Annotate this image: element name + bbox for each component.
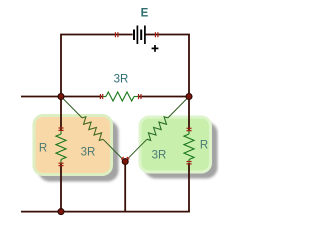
wire right R bottom lead (188, 163, 190, 212)
wire left stub (21, 96, 61, 98)
wire middle left of 3R (61, 96, 102, 98)
resistor 3R diagonal right zigzag (147, 117, 168, 141)
node C ticks (121, 157, 129, 159)
highlight box green shadow (145, 122, 218, 179)
resistor R left bottom ticks (59, 163, 64, 165)
highlight box orange (34, 116, 112, 175)
resistor R left top ticks (59, 128, 64, 130)
resistor 3R middle zigzag (106, 92, 134, 101)
node B (186, 94, 192, 100)
node C (122, 159, 128, 165)
battery E plates (134, 26, 145, 45)
wire right R top lead (188, 97, 190, 131)
resistor 3R diagonal left zigzag (82, 117, 103, 141)
battery plus sign (152, 45, 159, 52)
svg-text:R: R (200, 140, 208, 152)
resistor 3R middle leads (102, 96, 106, 98)
resistor R right zigzag (184, 134, 194, 160)
battery right terminal ticks (155, 32, 158, 37)
node D (58, 209, 64, 215)
wire top left segment (61, 35, 133, 97)
wire left R top lead (60, 97, 62, 131)
wire node C stem (124, 162, 126, 212)
resistor 3R middle left ticks (100, 94, 102, 99)
resistor 3R diagonal left leads (61, 97, 82, 118)
svg-text:3R: 3R (81, 147, 96, 159)
resistor R right leads (188, 130, 190, 134)
battery left terminal ticks (115, 32, 118, 37)
svg-text:R: R (39, 143, 47, 155)
resistor R right top ticks (187, 128, 192, 130)
svg-text:3R: 3R (152, 150, 167, 162)
resistor R right bottom ticks (187, 162, 192, 164)
resistor 3R middle right ticks (139, 94, 142, 99)
highlight box green (140, 117, 211, 172)
node A (58, 94, 64, 100)
resistor 3R diagonal right leads (168, 97, 189, 118)
svg-text:E: E (141, 8, 149, 20)
resistor R left zigzag (56, 134, 66, 160)
wire top right segment (146, 35, 190, 97)
resistor R left leads (60, 130, 62, 134)
wire left R bottom lead (60, 163, 62, 212)
wire middle right of 3R (138, 96, 189, 98)
highlight box orange shadow (39, 121, 119, 182)
svg-text:3R: 3R (114, 74, 129, 86)
wire bottom rail (21, 211, 190, 213)
